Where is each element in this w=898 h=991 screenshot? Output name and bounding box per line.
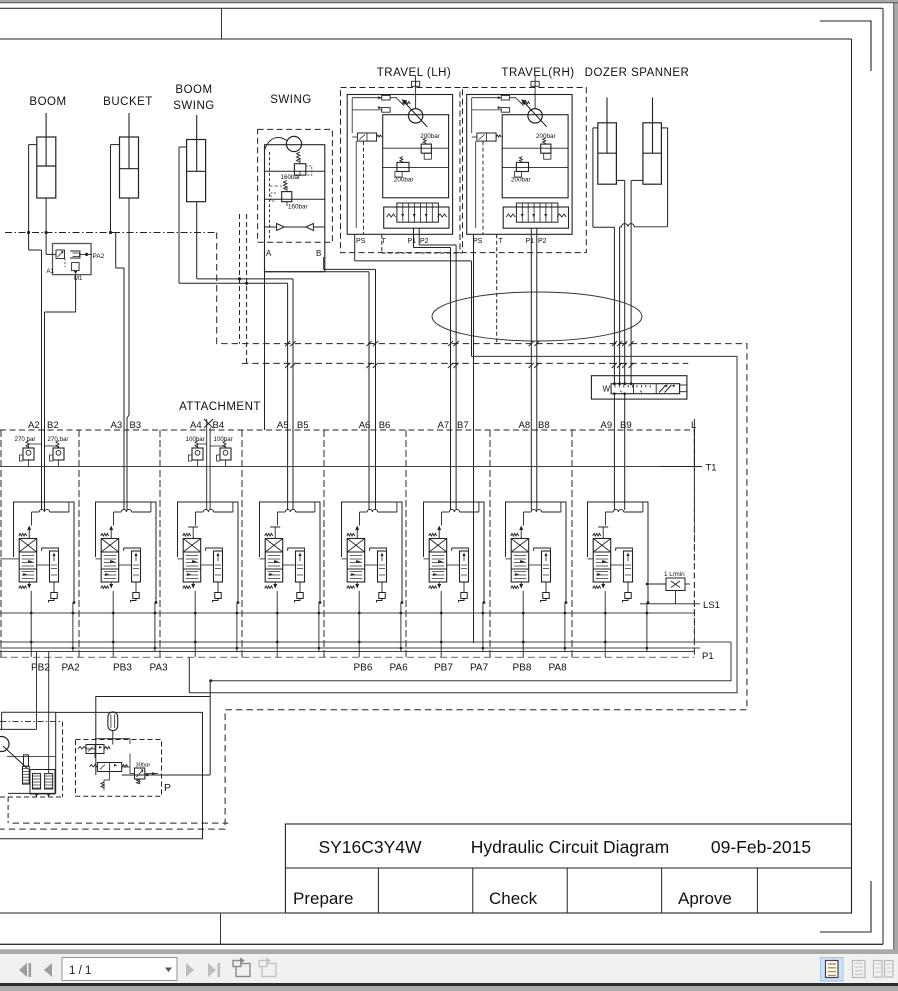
svg-text:100bar: 100bar <box>214 436 233 443</box>
pilot relief valve <box>135 763 151 785</box>
svg-text:PA7: PA7 <box>470 663 489 674</box>
wire spanner head side <box>630 180 643 385</box>
svg-text:200bar: 200bar <box>511 177 531 184</box>
gallery LS <box>0 612 694 614</box>
toolbar icon last page <box>208 963 220 977</box>
wire bucket head side <box>109 145 124 510</box>
svg-text:PB6: PB6 <box>354 663 373 674</box>
throttle 1 L/min <box>646 571 690 591</box>
svg-text:P1: P1 <box>526 238 535 245</box>
swing gallery lines <box>265 171 325 199</box>
svg-text:B2: B2 <box>47 420 59 431</box>
cylinder BOOM <box>37 113 56 198</box>
port relief B2 270bar <box>48 436 69 467</box>
toolbar icon previous view <box>233 958 250 977</box>
svg-text:LS1: LS1 <box>703 600 720 611</box>
dashed crossing ticks <box>285 341 634 368</box>
svg-text:PB3: PB3 <box>113 663 132 674</box>
pilot region dashed boundary inner <box>242 362 689 364</box>
svg-text:BOOM: BOOM <box>175 84 212 96</box>
pump block frame <box>0 712 56 793</box>
svg-text:A8: A8 <box>519 420 531 431</box>
valve section 3 <box>96 502 158 657</box>
travel LH 200bar labels <box>394 133 440 184</box>
svg-text:W: W <box>603 385 611 394</box>
svg-text:BOOM: BOOM <box>29 96 66 108</box>
tank line bottom <box>0 712 203 838</box>
label Aprove <box>678 889 732 908</box>
pilot block frame <box>96 697 210 776</box>
svg-text:09-Feb-2015: 09-Feb-2015 <box>711 837 811 857</box>
svg-text:P1: P1 <box>408 238 417 245</box>
svg-text:PS: PS <box>473 238 483 245</box>
svg-text:A6: A6 <box>359 420 371 431</box>
gallery tank <box>0 651 695 653</box>
pilot solenoid valve 1 <box>78 739 130 754</box>
svg-text:ATTACHMENT: ATTACHMENT <box>179 401 261 413</box>
wire swing B <box>324 257 376 510</box>
label ATTACHMENT <box>179 401 261 413</box>
label M1 <box>74 276 83 282</box>
pilot dashed box <box>76 740 162 797</box>
svg-text:160bar: 160bar <box>288 204 308 211</box>
wire swing A <box>265 272 370 510</box>
wire holding valve to B2 <box>45 312 76 510</box>
svg-text:SWING: SWING <box>173 100 214 112</box>
svg-text:A5: A5 <box>277 420 289 431</box>
wire A4 B4 stubs <box>207 419 210 510</box>
wire travel RH P2 <box>536 228 538 510</box>
svg-text:P: P <box>164 782 171 794</box>
svg-text:B6: B6 <box>379 420 391 431</box>
gallery T1 <box>0 466 702 468</box>
svg-text:BUCKET: BUCKET <box>103 96 153 108</box>
svg-text:L: L <box>691 420 696 431</box>
svg-text:A4: A4 <box>190 420 202 431</box>
svg-text:B8: B8 <box>538 420 550 431</box>
swing motor <box>265 136 302 151</box>
valve section 5 <box>260 502 322 657</box>
wire travel LH P2 <box>419 228 456 510</box>
blocked port mark A4 B4 <box>204 419 213 428</box>
svg-text:Hydraulic Circuit Diagram: Hydraulic Circuit Diagram <box>471 837 669 857</box>
wire dozer rod side <box>616 180 626 385</box>
wire spanner rod side <box>618 128 667 385</box>
manifold right dashed edge <box>693 429 695 643</box>
port labels PB PA <box>31 663 567 674</box>
travel RH 200bar labels <box>511 133 556 184</box>
svg-text:A2: A2 <box>28 420 40 431</box>
title text Hydraulic Circuit Diagram <box>471 837 669 857</box>
cylinder BOOM SWING <box>187 115 206 202</box>
svg-text:B: B <box>316 249 321 258</box>
svg-text:Prepare: Prepare <box>293 889 353 908</box>
svg-text:A1: A1 <box>47 269 55 275</box>
svg-text:100bar: 100bar <box>186 436 205 443</box>
pilot travel RH T <box>496 234 498 343</box>
holding valve boom <box>46 244 92 313</box>
travel motor LH <box>347 76 452 234</box>
label W <box>603 385 611 394</box>
wire LS1 <box>640 591 700 604</box>
solenoid valve W <box>591 376 687 399</box>
wire LS section1 stub <box>0 558 14 560</box>
pilot line to boom swing lines <box>238 214 248 363</box>
cylinder BUCKET <box>120 113 139 198</box>
valve section 9 <box>588 502 650 657</box>
port relief B4 100bar <box>214 436 233 467</box>
label SWING <box>270 94 311 106</box>
svg-text:160bar: 160bar <box>281 174 301 181</box>
swing motor block <box>258 129 333 271</box>
svg-text:M1: M1 <box>74 276 83 282</box>
cylinder DOZER <box>598 97 617 184</box>
svg-text:A7: A7 <box>438 420 450 431</box>
wire pilot internal <box>86 739 158 775</box>
wire boom swing head side <box>179 147 288 510</box>
svg-text:B3: B3 <box>130 420 142 431</box>
valve section 6 <box>342 502 404 657</box>
pilot line swing reliefs <box>270 152 282 240</box>
wire pump outlets <box>37 652 49 774</box>
wire drain <box>95 754 110 791</box>
bottom strip divider <box>220 913 222 944</box>
svg-text:200bar: 200bar <box>394 177 414 184</box>
fold mark bottom-right <box>820 881 871 932</box>
svg-text:200bar: 200bar <box>536 133 556 140</box>
valve section 4 <box>178 502 240 657</box>
label Prepare <box>293 889 353 908</box>
travel motor RH <box>467 76 572 234</box>
toolbar view facing <box>874 961 894 978</box>
title block <box>285 824 851 913</box>
relief valve swing 160bar lower <box>271 181 292 207</box>
manifold dashed outline <box>0 430 694 657</box>
svg-text:B5: B5 <box>297 420 309 431</box>
wire A2 relief link <box>29 444 42 448</box>
svg-text:A9: A9 <box>601 420 613 431</box>
wire pilot P out <box>122 681 211 777</box>
toolbar view continuous <box>853 961 866 978</box>
label T1 <box>660 463 717 474</box>
toolbar icon prev page <box>44 963 52 977</box>
swing check valves <box>265 224 325 231</box>
svg-text:30bar: 30bar <box>136 763 151 769</box>
accumulator <box>108 712 118 739</box>
label Check <box>489 889 538 908</box>
wire boom swing rod side <box>197 202 293 510</box>
label LS1 <box>703 600 720 611</box>
svg-text:PB2: PB2 <box>31 663 50 674</box>
title text date <box>711 837 811 857</box>
pilot dash-dot line <box>5 231 217 234</box>
pilot solenoid valve 2 <box>90 763 128 772</box>
svg-text:PA3: PA3 <box>150 663 169 674</box>
pilot travel LH T <box>382 234 462 253</box>
manifold section dividers <box>1 430 572 657</box>
label 160bar lower <box>288 204 308 211</box>
label A1 <box>47 269 55 275</box>
label swing port B <box>316 249 321 258</box>
label TRAVEL (LH) <box>377 67 452 79</box>
svg-text:T: T <box>499 238 504 245</box>
svg-text:PB8: PB8 <box>513 663 532 674</box>
port relief A2 270bar <box>15 436 36 467</box>
toolbar page box <box>62 958 177 981</box>
wire A4 relief link <box>198 444 207 448</box>
svg-text:A: A <box>266 249 272 258</box>
svg-text:PA6: PA6 <box>390 663 409 674</box>
cylinder SPANNER <box>643 97 662 184</box>
svg-text:PA2: PA2 <box>93 253 105 260</box>
title text SY16C3Y4W <box>318 837 422 857</box>
top strip divider <box>221 8 223 39</box>
label 160bar upper <box>281 174 301 181</box>
travel LH dashed boundary <box>341 88 461 253</box>
pump elements <box>30 770 55 798</box>
label TRAVEL(RH) <box>501 67 574 79</box>
svg-text:1 L/min: 1 L/min <box>664 571 685 578</box>
wire L port <box>693 419 695 467</box>
wire boom head side <box>29 145 42 510</box>
toolbar view single page active <box>821 958 844 982</box>
svg-text:270 bar: 270 bar <box>48 436 69 443</box>
enclosure return line <box>189 356 737 692</box>
svg-text:SWING: SWING <box>270 94 311 106</box>
svg-text:Check: Check <box>489 889 538 908</box>
travel RH dashed boundary <box>463 88 587 253</box>
wire pump riser <box>188 657 190 692</box>
svg-text:P1: P1 <box>702 651 714 662</box>
svg-text:1 / 1: 1 / 1 <box>69 965 91 977</box>
svg-text:270 bar: 270 bar <box>15 436 36 443</box>
wire B2 relief link <box>45 446 59 448</box>
wire travel RH P1 <box>530 228 532 510</box>
valve section 2 <box>14 502 76 657</box>
gallery P1 <box>0 647 700 649</box>
pump regulator <box>23 755 30 784</box>
label BOOM <box>29 96 66 108</box>
svg-text:PB7: PB7 <box>434 663 453 674</box>
pump dashed box <box>0 722 228 824</box>
wire B4 relief link <box>210 446 225 448</box>
label P1 <box>702 651 714 662</box>
svg-text:B9: B9 <box>620 420 632 431</box>
label swing port A <box>266 249 272 258</box>
wire travel LH P1 <box>414 228 451 510</box>
svg-text:A3: A3 <box>111 420 123 431</box>
enclosure inner line <box>209 642 731 682</box>
relief valve swing 160bar upper <box>294 152 311 175</box>
fold mark top-right <box>820 21 871 71</box>
callout ellipse <box>432 292 642 341</box>
svg-text:200bar: 200bar <box>420 133 440 140</box>
port labels A B <box>28 420 632 431</box>
valve section 7 <box>424 502 486 657</box>
svg-text:SY16C3Y4W: SY16C3Y4W <box>318 837 422 857</box>
toolbar icon next view <box>259 958 276 977</box>
svg-text:T1: T1 <box>706 463 717 474</box>
svg-text:DOZER SPANNER: DOZER SPANNER <box>585 67 690 79</box>
svg-text:B4: B4 <box>213 420 225 431</box>
svg-text:PS: PS <box>356 238 366 245</box>
label BUCKET <box>103 96 153 108</box>
pump circle <box>0 737 27 769</box>
svg-text:PA8: PA8 <box>549 663 568 674</box>
wire dozer head side <box>593 128 616 385</box>
svg-text:PA2: PA2 <box>62 663 81 674</box>
svg-text:TRAVEL (LH): TRAVEL (LH) <box>377 67 452 79</box>
wire A9 below valve <box>613 392 626 510</box>
toolbar icon next page <box>186 963 194 977</box>
label BOOM SWING <box>173 84 214 112</box>
travel RH port labels <box>473 238 547 245</box>
svg-text:P2: P2 <box>538 238 547 245</box>
svg-text:B7: B7 <box>457 420 469 431</box>
svg-text:TRAVEL(RH): TRAVEL(RH) <box>501 67 574 79</box>
label DOZER SPANNER <box>585 67 690 79</box>
svg-text:Aprove: Aprove <box>678 889 732 908</box>
wire bucket rod side <box>127 198 129 510</box>
label P <box>164 782 171 794</box>
port relief A4 100bar <box>186 436 205 467</box>
wire boom rod side <box>45 198 47 254</box>
toolbar icons first page <box>19 963 31 977</box>
wire travel RH PS <box>473 234 475 643</box>
valve section 8 <box>506 502 568 657</box>
gallery T return <box>0 641 731 643</box>
pilot region dashed boundary outer <box>0 233 747 830</box>
label PA2 <box>93 253 105 260</box>
wire travel LH PS <box>355 234 472 356</box>
travel LH port labels <box>356 238 429 245</box>
label L <box>691 420 696 431</box>
svg-text:P2: P2 <box>420 238 429 245</box>
pump centerline <box>0 721 63 723</box>
